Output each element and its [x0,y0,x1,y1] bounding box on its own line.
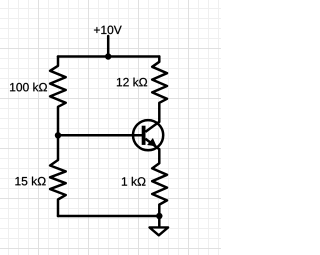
node base junction [55,132,61,138]
label 100 kOhm [10,83,47,92]
node top junction [105,53,111,59]
label +10V [94,26,122,34]
resistor R1 100k [50,57,66,136]
wire supply stub [107,36,110,57]
ground [150,216,169,235]
grid (decorative) [0,0,221,255]
resistor R3 12k [152,57,167,122]
wire bottom rail [58,215,159,218]
label 15 kOhm [15,177,45,186]
node bottom junction [156,213,162,219]
label 1 kOhm [122,177,146,186]
wire base wire [58,134,142,137]
transistor Q1 [133,120,163,150]
label 12 kOhm [117,78,147,87]
wire top rail [58,55,159,58]
resistor R2 15k [50,135,66,216]
resistor R4 1k [152,149,167,216]
